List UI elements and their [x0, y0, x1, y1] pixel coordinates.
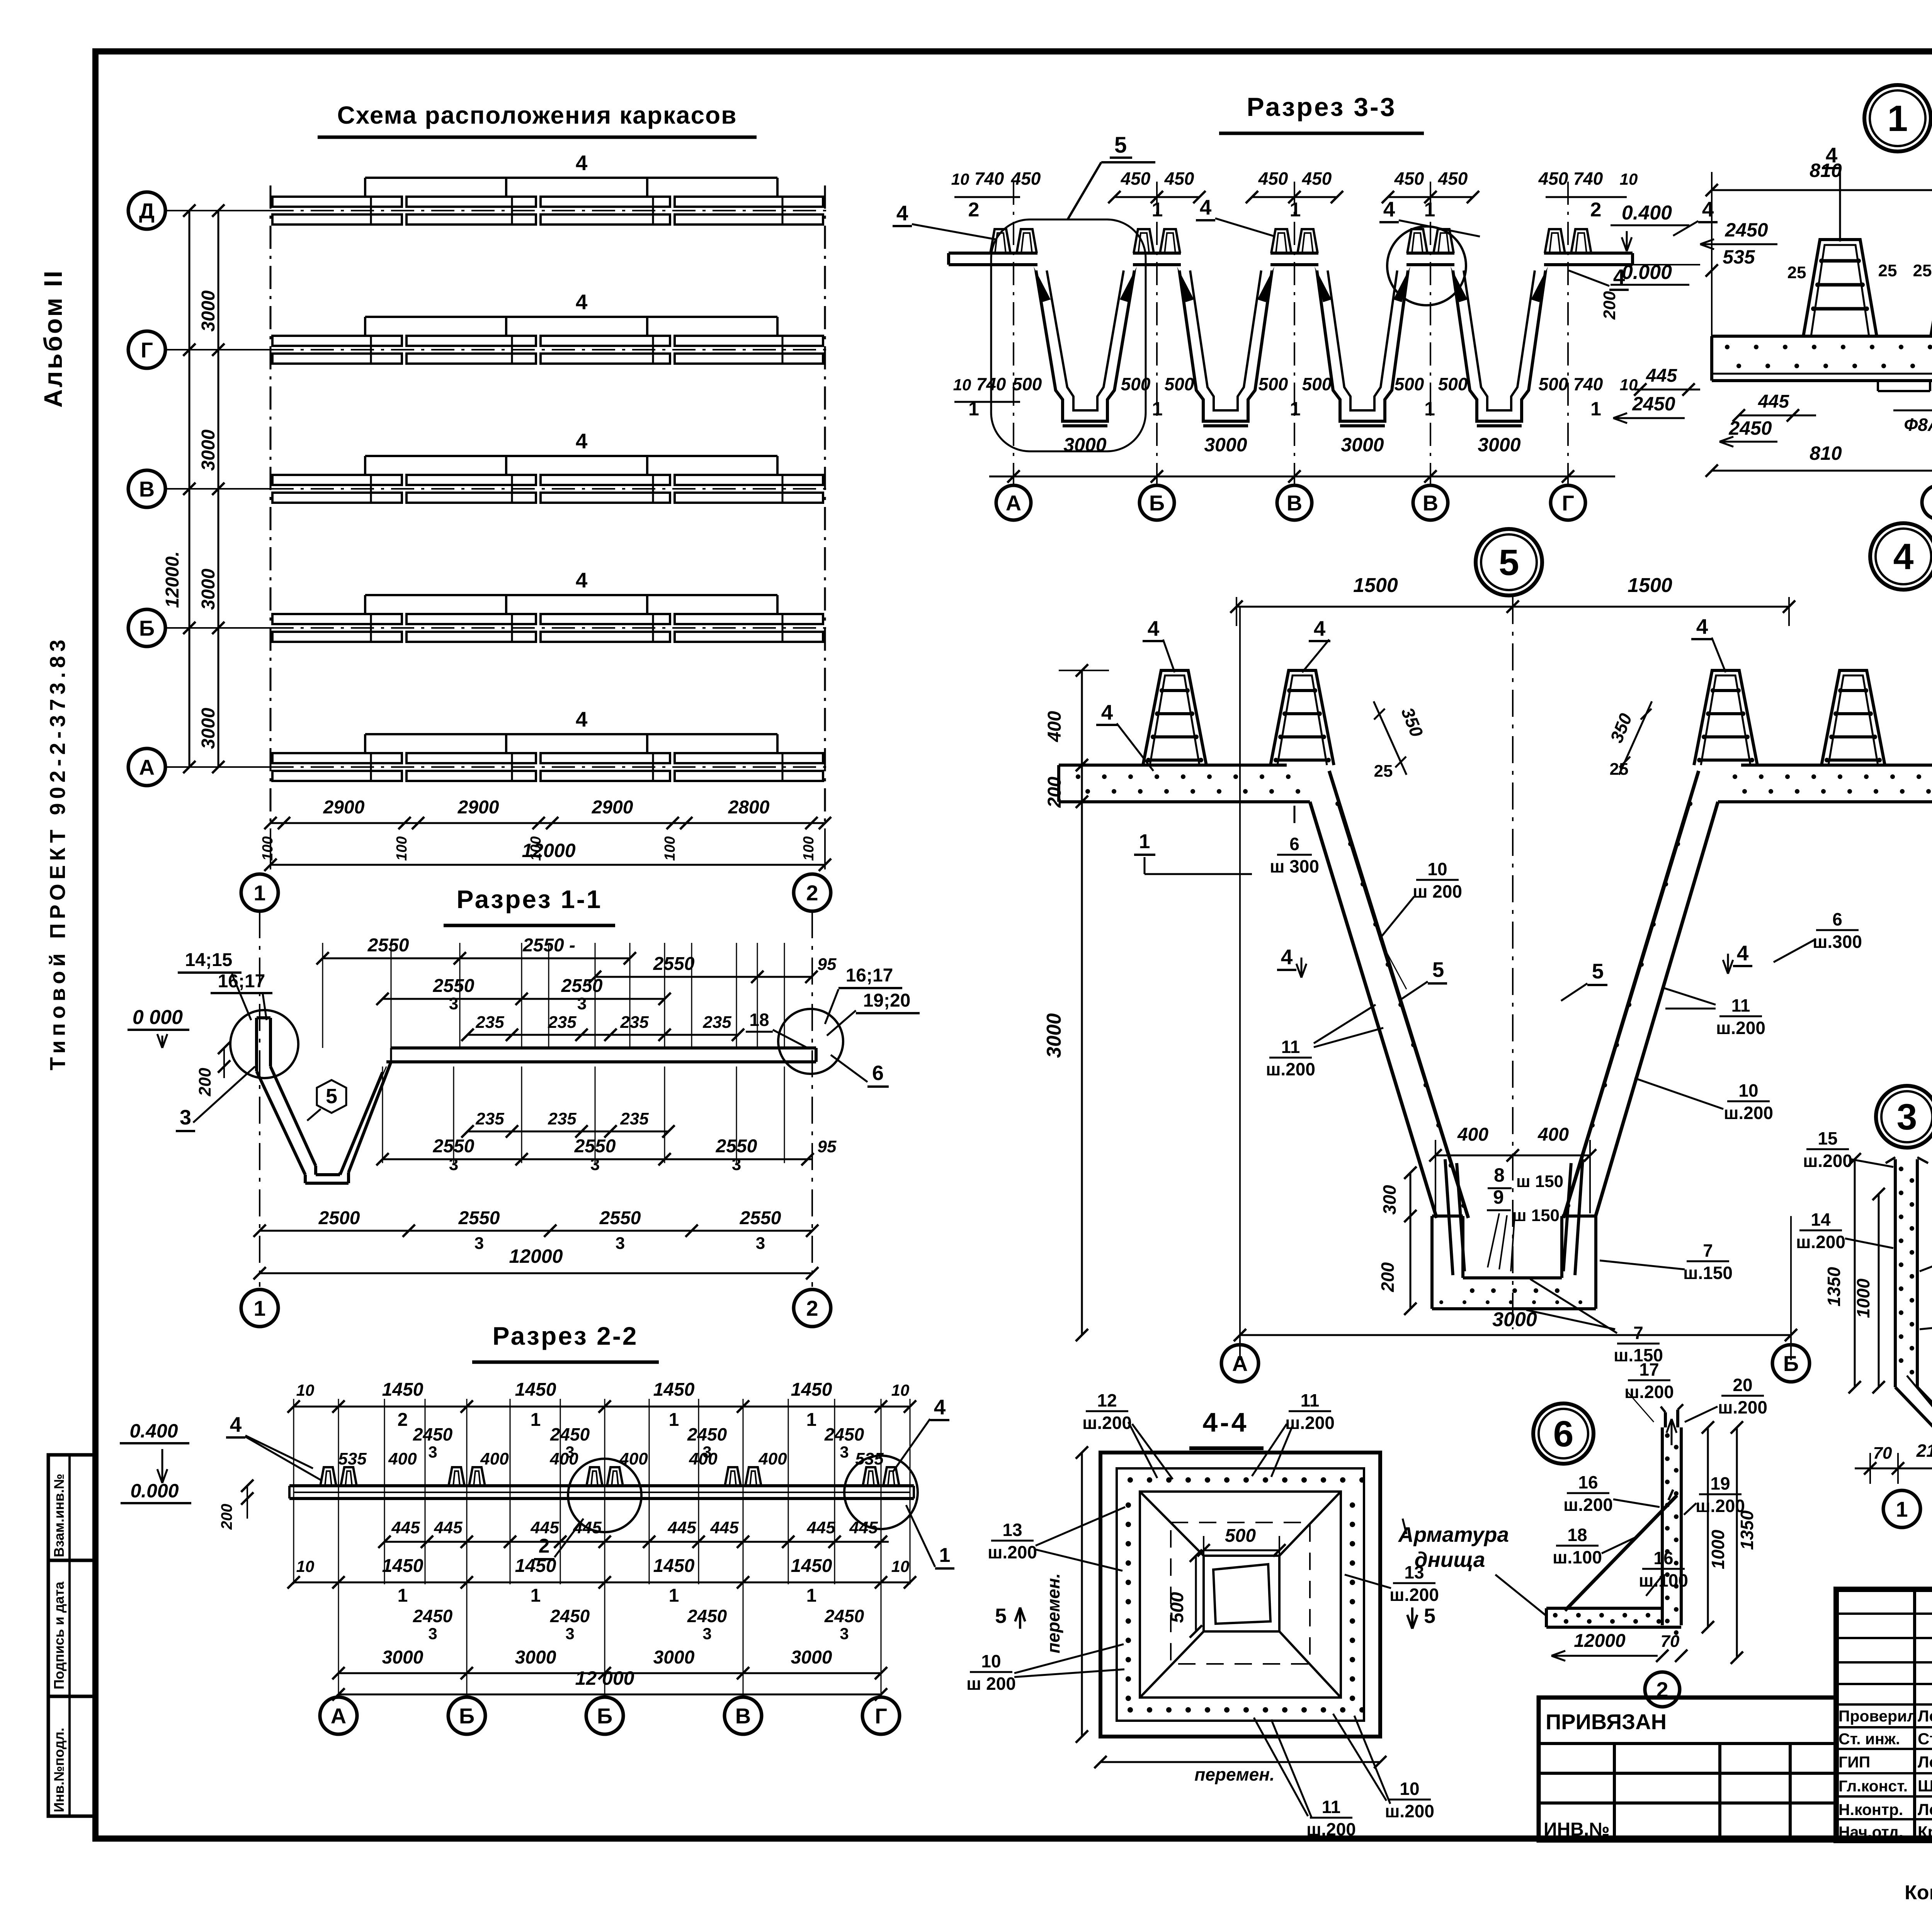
svg-text:1450: 1450 — [515, 1556, 556, 1576]
svg-text:95: 95 — [818, 955, 837, 974]
svg-text:3: 3 — [577, 994, 587, 1013]
svg-text:Ф8АIш300: Ф8АIш300 — [1904, 415, 1932, 435]
svg-text:3: 3 — [756, 1234, 765, 1253]
svg-text:2550: 2550 — [653, 954, 695, 974]
svg-text:3000: 3000 — [1492, 1308, 1537, 1331]
svg-text:Б: Б — [459, 1704, 474, 1728]
svg-text:3000: 3000 — [1341, 434, 1384, 456]
svg-text:Б: Б — [1783, 1351, 1799, 1376]
svg-text:1: 1 — [806, 1410, 817, 1430]
svg-text:Альбом II: Альбом II — [39, 269, 67, 408]
svg-text:2450: 2450 — [1725, 219, 1768, 241]
svg-text:14;15: 14;15 — [185, 950, 233, 970]
svg-text:18: 18 — [1567, 1525, 1587, 1545]
svg-text:3000: 3000 — [198, 429, 219, 471]
svg-text:16: 16 — [1653, 1548, 1673, 1568]
svg-text:1: 1 — [1290, 199, 1301, 221]
svg-text:70: 70 — [1873, 1444, 1892, 1463]
svg-text:ш.100: ш.100 — [1639, 1570, 1688, 1590]
svg-text:3000: 3000 — [198, 568, 219, 610]
svg-text:А: А — [139, 755, 155, 779]
svg-text:ш.200: ш.200 — [1082, 1413, 1132, 1433]
svg-text:ш.200: ш.200 — [1696, 1496, 1745, 1516]
svg-text:6: 6 — [1553, 1414, 1574, 1454]
svg-text:200: 200 — [1044, 777, 1065, 808]
svg-text:1: 1 — [1424, 398, 1435, 420]
svg-text:Лоуцкер: Лоуцкер — [1918, 1800, 1932, 1818]
svg-text:Инв.№подл.: Инв.№подл. — [51, 1728, 67, 1812]
svg-text:445: 445 — [806, 1518, 835, 1537]
svg-text:В: В — [735, 1704, 751, 1728]
svg-text:10: 10 — [953, 376, 971, 394]
svg-text:500: 500 — [1165, 374, 1194, 394]
svg-text:ш.100: ш.100 — [1553, 1547, 1602, 1567]
svg-text:ИНВ.№: ИНВ.№ — [1544, 1819, 1610, 1840]
svg-text:7: 7 — [1703, 1240, 1713, 1260]
svg-text:0.400: 0.400 — [129, 1420, 178, 1442]
svg-text:2450: 2450 — [824, 1606, 864, 1626]
svg-text:4: 4 — [1200, 195, 1212, 219]
svg-text:235: 235 — [548, 1109, 577, 1128]
svg-text:400: 400 — [619, 1449, 648, 1468]
svg-text:1000: 1000 — [1708, 1529, 1728, 1569]
svg-text:2500: 2500 — [318, 1208, 360, 1228]
svg-text:2: 2 — [806, 1296, 818, 1320]
svg-text:1: 1 — [968, 398, 979, 420]
svg-text:Нач.отд.: Нач.отд. — [1838, 1823, 1903, 1841]
svg-text:25: 25 — [1913, 261, 1932, 280]
svg-text:25: 25 — [1610, 760, 1629, 779]
svg-text:В: В — [139, 477, 155, 501]
svg-text:5: 5 — [326, 1085, 337, 1108]
svg-text:1350: 1350 — [1824, 1267, 1844, 1306]
svg-text:12: 12 — [1097, 1390, 1117, 1410]
svg-text:500: 500 — [1395, 374, 1424, 394]
svg-text:ш.200: ш.200 — [1718, 1397, 1767, 1417]
svg-text:400: 400 — [388, 1449, 417, 1468]
svg-text:А: А — [1006, 491, 1021, 515]
svg-text:70: 70 — [1661, 1632, 1680, 1651]
svg-text:1450: 1450 — [515, 1379, 556, 1400]
svg-text:1: 1 — [806, 1585, 817, 1606]
svg-text:20: 20 — [1733, 1375, 1752, 1395]
svg-text:17: 17 — [1639, 1359, 1659, 1379]
svg-text:2900: 2900 — [323, 797, 365, 818]
svg-text:1: 1 — [253, 1296, 265, 1320]
svg-text:Н.контр.: Н.контр. — [1838, 1801, 1903, 1818]
svg-text:3: 3 — [840, 1624, 849, 1643]
svg-text:1: 1 — [1152, 199, 1163, 221]
svg-text:Разрез 1-1: Разрез 1-1 — [456, 885, 602, 913]
svg-text:2450: 2450 — [413, 1424, 453, 1444]
svg-text:ш 150: ш 150 — [1512, 1206, 1560, 1225]
svg-text:9: 9 — [1493, 1186, 1504, 1208]
svg-text:25: 25 — [1878, 261, 1897, 280]
svg-text:445: 445 — [530, 1518, 559, 1537]
svg-text:4: 4 — [1826, 143, 1838, 167]
svg-text:450: 450 — [1538, 168, 1568, 189]
svg-text:Стронгин: Стронгин — [1918, 1730, 1932, 1748]
svg-text:18: 18 — [749, 1010, 769, 1030]
svg-text:Разрез 2-2: Разрез 2-2 — [492, 1322, 638, 1350]
svg-text:3000: 3000 — [653, 1647, 695, 1668]
svg-text:1: 1 — [939, 1544, 951, 1567]
svg-text:500: 500 — [1539, 374, 1568, 394]
svg-text:500: 500 — [1225, 1526, 1256, 1546]
svg-text:ш.150: ш.150 — [1683, 1263, 1733, 1283]
svg-text:2450: 2450 — [687, 1606, 727, 1626]
svg-text:10: 10 — [951, 170, 969, 188]
svg-text:1: 1 — [669, 1585, 679, 1606]
svg-text:2: 2 — [1590, 199, 1602, 221]
svg-text:2450: 2450 — [550, 1606, 590, 1626]
svg-text:ш.200: ш.200 — [1285, 1413, 1335, 1433]
svg-text:0.400: 0.400 — [1622, 202, 1672, 224]
svg-text:4: 4 — [934, 1395, 946, 1419]
svg-text:10: 10 — [296, 1557, 315, 1575]
svg-text:А: А — [1232, 1351, 1248, 1376]
svg-text:ш.200: ш.200 — [1716, 1018, 1765, 1038]
svg-text:2900: 2900 — [592, 797, 633, 818]
svg-text:3000: 3000 — [515, 1647, 556, 1668]
svg-text:3: 3 — [616, 1234, 625, 1253]
svg-text:ГИП: ГИП — [1838, 1753, 1870, 1771]
svg-text:12000: 12000 — [1574, 1631, 1626, 1651]
svg-text:Взам.инв.№: Взам.инв.№ — [51, 1474, 67, 1557]
svg-text:4: 4 — [576, 707, 588, 731]
svg-text:2550: 2550 — [367, 935, 409, 956]
svg-text:215: 215 — [1916, 1441, 1932, 1461]
svg-text:ш.200: ш.200 — [1796, 1232, 1845, 1252]
svg-text:15: 15 — [1818, 1128, 1837, 1148]
svg-text:95: 95 — [818, 1137, 837, 1156]
svg-text:1: 1 — [669, 1410, 679, 1430]
svg-text:1450: 1450 — [791, 1556, 832, 1576]
svg-text:500: 500 — [1259, 374, 1288, 394]
svg-text:ш.200: ш.200 — [1389, 1585, 1439, 1605]
svg-text:2: 2 — [539, 1535, 550, 1557]
svg-text:11: 11 — [1731, 995, 1750, 1015]
svg-text:2450: 2450 — [824, 1424, 864, 1444]
svg-text:6: 6 — [872, 1061, 884, 1085]
svg-text:ш.200: ш.200 — [1306, 1819, 1356, 1839]
svg-text:1: 1 — [1290, 398, 1301, 420]
svg-text:А: А — [331, 1704, 346, 1728]
svg-text:25: 25 — [1787, 263, 1806, 282]
svg-text:740: 740 — [1573, 168, 1603, 189]
svg-text:ш 150: ш 150 — [1516, 1172, 1563, 1191]
svg-text:500: 500 — [1438, 374, 1468, 394]
svg-text:4: 4 — [1383, 197, 1395, 221]
svg-text:16;17: 16;17 — [218, 971, 265, 992]
svg-text:400: 400 — [758, 1449, 787, 1468]
svg-text:3: 3 — [565, 1624, 574, 1643]
svg-text:10: 10 — [296, 1381, 315, 1399]
svg-text:Схема расположения каркасов: Схема расположения каркасов — [337, 101, 737, 129]
svg-text:0 000: 0 000 — [133, 1006, 183, 1029]
svg-text:10: 10 — [1738, 1080, 1758, 1101]
svg-text:Гл.конст.: Гл.конст. — [1838, 1777, 1908, 1795]
svg-text:535: 535 — [855, 1449, 884, 1468]
svg-text:3000: 3000 — [198, 290, 219, 332]
svg-text:10: 10 — [981, 1651, 1001, 1671]
svg-text:10: 10 — [891, 1381, 910, 1399]
svg-text:1: 1 — [1424, 199, 1435, 221]
svg-text:1450: 1450 — [791, 1379, 832, 1400]
svg-text:Ст. инж.: Ст. инж. — [1838, 1730, 1900, 1748]
svg-text:4: 4 — [576, 568, 588, 592]
svg-text:11: 11 — [1322, 1797, 1341, 1817]
svg-text:445: 445 — [434, 1518, 463, 1537]
svg-text:235: 235 — [620, 1013, 649, 1032]
svg-text:1: 1 — [1896, 1497, 1908, 1521]
svg-text:445: 445 — [710, 1518, 739, 1537]
svg-text:450: 450 — [1394, 168, 1424, 189]
svg-text:Подпись и дата: Подпись и дата — [51, 1581, 67, 1689]
svg-text:16: 16 — [1578, 1472, 1598, 1492]
svg-text:1450: 1450 — [653, 1379, 695, 1400]
svg-text:4: 4 — [576, 290, 588, 314]
svg-text:3: 3 — [180, 1106, 191, 1129]
svg-text:2550: 2550 — [599, 1208, 641, 1228]
svg-text:перемен.: перемен. — [1043, 1573, 1063, 1653]
svg-text:Лоуцкер: Лоуцкер — [1918, 1753, 1932, 1771]
svg-text:Разрез 3-3: Разрез 3-3 — [1247, 92, 1396, 122]
svg-text:3: 3 — [840, 1443, 849, 1461]
svg-text:5: 5 — [995, 1604, 1007, 1628]
svg-text:235: 235 — [475, 1013, 504, 1032]
svg-text:10: 10 — [1620, 376, 1638, 394]
svg-text:450: 450 — [1302, 168, 1332, 189]
svg-text:400: 400 — [549, 1449, 578, 1468]
svg-text:4: 4 — [1737, 941, 1749, 965]
svg-text:10: 10 — [1620, 170, 1638, 188]
svg-text:3000: 3000 — [198, 708, 219, 749]
svg-text:3000: 3000 — [1478, 434, 1520, 456]
svg-text:445: 445 — [849, 1518, 878, 1537]
svg-text:100: 100 — [801, 836, 817, 861]
svg-text:ш.200: ш.200 — [1266, 1059, 1315, 1079]
svg-text:Г: Г — [875, 1704, 887, 1728]
svg-text:200: 200 — [218, 1504, 235, 1530]
svg-text:100: 100 — [394, 836, 410, 861]
svg-text:4: 4 — [576, 151, 588, 175]
svg-text:2550: 2550 — [561, 976, 603, 996]
svg-text:3: 3 — [428, 1443, 437, 1461]
svg-text:445: 445 — [1646, 366, 1677, 386]
svg-text:100: 100 — [260, 836, 276, 861]
svg-text:В: В — [1287, 491, 1302, 515]
svg-text:235: 235 — [702, 1013, 731, 1032]
svg-text:ш.200: ш.200 — [1563, 1495, 1613, 1515]
svg-text:400: 400 — [689, 1449, 718, 1468]
svg-text:500: 500 — [1167, 1592, 1187, 1623]
svg-text:3000: 3000 — [1063, 434, 1106, 456]
svg-text:4: 4 — [1893, 536, 1914, 577]
svg-text:2450: 2450 — [1632, 393, 1675, 415]
svg-text:4: 4 — [1314, 616, 1326, 640]
svg-text:Б: Б — [1149, 491, 1165, 515]
svg-text:Б: Б — [139, 616, 155, 640]
svg-text:450: 450 — [1011, 168, 1041, 189]
svg-text:3: 3 — [449, 994, 458, 1013]
svg-text:740: 740 — [976, 374, 1006, 394]
svg-text:1: 1 — [1888, 98, 1908, 139]
svg-text:10: 10 — [891, 1557, 910, 1575]
svg-text:10: 10 — [1427, 859, 1447, 879]
svg-text:2450: 2450 — [413, 1606, 453, 1626]
svg-text:2900: 2900 — [457, 797, 499, 818]
svg-text:1: 1 — [1139, 830, 1150, 853]
svg-text:1450: 1450 — [382, 1556, 423, 1576]
svg-text:445: 445 — [1758, 391, 1789, 412]
svg-text:4: 4 — [230, 1412, 242, 1436]
svg-text:1500: 1500 — [1628, 574, 1672, 597]
svg-text:3: 3 — [702, 1624, 711, 1643]
svg-text:3: 3 — [1897, 1097, 1917, 1138]
svg-text:Красавин: Красавин — [1918, 1823, 1932, 1841]
svg-text:400: 400 — [1537, 1124, 1569, 1145]
svg-text:4: 4 — [576, 429, 588, 453]
svg-text:4: 4 — [1148, 616, 1160, 640]
svg-text:Д: Д — [139, 199, 155, 223]
svg-text:1450: 1450 — [382, 1379, 423, 1400]
svg-text:3000: 3000 — [1043, 1013, 1065, 1058]
svg-text:13: 13 — [1002, 1520, 1022, 1540]
svg-text:5: 5 — [1424, 1604, 1435, 1628]
svg-text:14: 14 — [1811, 1209, 1831, 1230]
svg-text:2: 2 — [806, 881, 818, 905]
svg-text:5: 5 — [1432, 958, 1444, 981]
svg-text:ПРИВЯЗАН: ПРИВЯЗАН — [1546, 1709, 1667, 1734]
svg-text:10: 10 — [1400, 1779, 1419, 1799]
svg-text:4: 4 — [1696, 614, 1708, 638]
svg-text:1: 1 — [253, 881, 265, 905]
svg-text:12000: 12000 — [522, 840, 575, 861]
svg-text:450: 450 — [1258, 168, 1288, 189]
svg-text:Типовой ПРОЕКТ 902-2-373.83: Типовой ПРОЕКТ 902-2-373.83 — [45, 635, 70, 1070]
svg-text:2800: 2800 — [728, 797, 770, 818]
svg-text:16;17: 16;17 — [846, 965, 893, 986]
svg-text:ш.200: ш.200 — [1624, 1382, 1674, 1402]
svg-text:6: 6 — [1832, 909, 1842, 929]
svg-text:3: 3 — [428, 1624, 437, 1643]
svg-text:1: 1 — [1590, 398, 1601, 420]
svg-text:ш.200: ш.200 — [1803, 1151, 1852, 1171]
svg-text:0.000: 0.000 — [130, 1480, 179, 1502]
svg-text:1: 1 — [398, 1585, 408, 1606]
svg-text:12000.: 12000. — [162, 551, 183, 608]
svg-text:1350: 1350 — [1737, 1510, 1757, 1550]
svg-text:5: 5 — [1499, 542, 1519, 583]
svg-text:1: 1 — [531, 1585, 541, 1606]
svg-text:6: 6 — [1289, 834, 1299, 854]
svg-text:Арматура: Арматура — [1398, 1522, 1509, 1546]
svg-text:ш 300: ш 300 — [1270, 856, 1319, 876]
svg-text:8: 8 — [1494, 1164, 1505, 1186]
svg-text:445: 445 — [667, 1518, 696, 1537]
svg-text:3000: 3000 — [791, 1647, 832, 1668]
svg-text:2450: 2450 — [550, 1424, 590, 1444]
svg-text:235: 235 — [548, 1013, 577, 1032]
svg-text:740: 740 — [975, 168, 1004, 189]
svg-text:25: 25 — [1374, 762, 1393, 781]
svg-text:3000: 3000 — [382, 1647, 423, 1668]
svg-text:445: 445 — [573, 1518, 602, 1537]
svg-text:235: 235 — [475, 1109, 504, 1128]
svg-text:535: 535 — [338, 1449, 367, 1468]
svg-text:740: 740 — [1573, 374, 1603, 394]
svg-text:2: 2 — [398, 1410, 408, 1430]
svg-text:4: 4 — [896, 201, 908, 225]
svg-text:3000: 3000 — [1204, 434, 1247, 456]
svg-text:В: В — [1423, 491, 1438, 515]
svg-text:2450: 2450 — [687, 1424, 727, 1444]
svg-text:2550: 2550 — [458, 1208, 500, 1228]
svg-text:300: 300 — [1379, 1185, 1400, 1214]
svg-text:2550: 2550 — [433, 976, 474, 996]
svg-text:ш 200: ш 200 — [1413, 881, 1462, 902]
svg-text:ш.200: ш.200 — [988, 1542, 1037, 1562]
svg-text:1: 1 — [531, 1410, 541, 1430]
svg-text:Лоуцкер: Лоуцкер — [1918, 1707, 1932, 1725]
svg-text:500: 500 — [1012, 374, 1042, 394]
svg-text:Б: Б — [597, 1704, 612, 1728]
svg-text:ш 200: ш 200 — [966, 1674, 1016, 1694]
svg-text:днища: днища — [1415, 1548, 1485, 1572]
svg-text:2550: 2550 — [740, 1208, 781, 1228]
svg-text:1: 1 — [1152, 398, 1163, 420]
svg-text:1450: 1450 — [653, 1556, 695, 1576]
svg-text:400: 400 — [480, 1449, 509, 1468]
svg-text:13: 13 — [1404, 1562, 1424, 1582]
svg-text:Г: Г — [141, 338, 153, 362]
svg-text:2450: 2450 — [1728, 417, 1772, 439]
svg-text:11: 11 — [1281, 1037, 1300, 1057]
svg-text:4: 4 — [1281, 945, 1293, 969]
svg-text:5: 5 — [1114, 133, 1127, 158]
svg-text:Копировал Музафарова: Копировал Музафарова — [1905, 1881, 1932, 1904]
svg-text:450: 450 — [1121, 168, 1151, 189]
svg-text:400: 400 — [1457, 1124, 1488, 1145]
svg-text:4: 4 — [1101, 700, 1113, 724]
svg-text:2: 2 — [968, 199, 980, 221]
svg-text:500: 500 — [1302, 374, 1332, 394]
svg-text:200: 200 — [1600, 291, 1619, 320]
svg-text:535: 535 — [1723, 246, 1755, 268]
svg-text:450: 450 — [1438, 168, 1468, 189]
svg-text:Шапиро: Шапиро — [1918, 1777, 1932, 1795]
svg-text:500: 500 — [1121, 374, 1151, 394]
svg-text:1000: 1000 — [1853, 1278, 1873, 1318]
svg-text:450: 450 — [1164, 168, 1194, 189]
svg-text:4-4: 4-4 — [1202, 1407, 1248, 1437]
svg-text:235: 235 — [620, 1109, 649, 1128]
svg-text:12000: 12000 — [509, 1245, 563, 1267]
svg-text:5: 5 — [1592, 959, 1604, 983]
svg-text:810: 810 — [1810, 442, 1842, 464]
svg-text:Г: Г — [1562, 491, 1574, 515]
svg-text:перемен.: перемен. — [1194, 1764, 1275, 1784]
svg-text:7: 7 — [1633, 1323, 1643, 1343]
svg-text:1500: 1500 — [1353, 574, 1398, 597]
svg-text:200: 200 — [1378, 1262, 1398, 1292]
svg-text:11: 11 — [1301, 1390, 1320, 1410]
svg-text:ш.200: ш.200 — [1724, 1103, 1773, 1123]
svg-text:400: 400 — [1044, 711, 1065, 742]
svg-text:100: 100 — [662, 836, 678, 861]
svg-text:ш.200: ш.200 — [1385, 1801, 1434, 1821]
